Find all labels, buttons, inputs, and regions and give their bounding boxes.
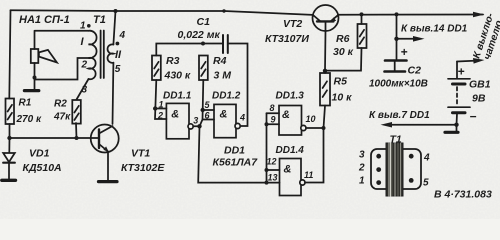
pin 5 label	[115, 64, 121, 75]
wire R1 bottom to base rail	[9, 124, 11, 138]
wire R5 bottom to pin10 node	[324, 106, 326, 129]
pin 3 label	[193, 116, 198, 126]
svg-text:II: II	[115, 49, 122, 61]
node junction pin1	[153, 106, 157, 110]
svg-text:4: 4	[239, 113, 245, 123]
wire R3 bottom to DD1.1 inputs	[155, 80, 166, 119]
wire winding I pin3 to R2	[77, 79, 89, 100]
svg-text:R3: R3	[166, 55, 180, 67]
DD1.4 label	[276, 145, 305, 156]
pin 13 label	[268, 173, 278, 183]
R1 value label	[16, 98, 42, 126]
gate DD1.2	[214, 104, 240, 137]
transformer T1 bottom label	[390, 134, 402, 146]
transformer T1 winding II	[108, 44, 114, 63]
chassis ground below speaker	[24, 78, 38, 91]
svg-text:+: +	[458, 65, 465, 79]
arrow to pin14	[413, 36, 425, 42]
svg-text:9: 9	[271, 115, 276, 125]
wire speaker top to winding I pin1	[35, 30, 89, 32]
wire base rail	[10, 137, 99, 139]
svg-text:4: 4	[423, 153, 430, 164]
svg-text:С1: С1	[197, 16, 211, 28]
arrow GB1 to switch	[473, 58, 485, 64]
battery GB1	[448, 62, 477, 125]
svg-text:5: 5	[423, 178, 429, 189]
svg-text:12: 12	[267, 157, 277, 167]
gate DD1.3 function label	[282, 109, 290, 121]
pin 3 label	[82, 85, 88, 96]
wire VT2 emitter to supply arrow	[339, 14, 484, 16]
wire DD1.3 out pin10	[306, 127, 324, 129]
node junction pin12	[265, 168, 269, 172]
wire left edge down to R1	[9, 10, 10, 98]
svg-text:2: 2	[157, 110, 163, 120]
capacitor C1	[223, 35, 228, 53]
winding II label	[115, 49, 122, 61]
node junction at winding II top	[114, 9, 118, 13]
pin 9 label	[271, 115, 276, 125]
resistor R1	[6, 99, 15, 125]
svg-text:R4: R4	[213, 55, 227, 67]
label K vyv 14 DD1	[401, 24, 468, 35]
svg-text:13: 13	[268, 173, 278, 183]
transformer T1 body	[371, 149, 421, 189]
svg-text:DD1.3: DD1.3	[276, 90, 305, 101]
node speaker bottom junction	[33, 76, 37, 80]
VD1 label	[23, 147, 62, 174]
svg-text:К выв.7 DD1: К выв.7 DD1	[369, 110, 430, 121]
wire speaker bottom to primary tap pin2	[35, 58, 89, 80]
gate DD1.4 function label	[284, 164, 292, 176]
wire input tie rail	[266, 113, 268, 182]
pin 1 label	[80, 21, 86, 32]
svg-text:&: &	[220, 108, 228, 120]
svg-text:1: 1	[159, 99, 164, 109]
gate DD1.1 function label	[171, 108, 179, 120]
wire DD1.2 pin5	[203, 109, 214, 111]
svg-text:11: 11	[304, 170, 313, 180]
svg-text:3: 3	[193, 116, 198, 126]
wire top rail from left box corner to VT2 collector	[11, 10, 313, 15]
svg-text:10: 10	[306, 114, 316, 124]
node junction pin3	[197, 124, 201, 128]
pin 11 label	[304, 170, 313, 180]
svg-text:С2: С2	[408, 65, 422, 77]
resistor R5	[320, 73, 330, 106]
pin 8 label	[270, 103, 275, 113]
svg-text:КТ3102Е: КТ3102Е	[121, 162, 165, 174]
svg-text:Т1: Т1	[93, 14, 106, 26]
wire R4 bottom to DD1.2 inputs	[203, 80, 215, 120]
svg-text:5: 5	[115, 64, 121, 75]
node junction R2/base	[75, 136, 79, 140]
pin 6 label	[205, 110, 211, 120]
svg-text:2: 2	[358, 163, 365, 174]
wire R6 top	[361, 14, 363, 24]
loudspeaker HA1 symbol	[31, 32, 57, 78]
wire R6 bottom to base node	[325, 48, 362, 71]
svg-text:GВ1: GВ1	[469, 79, 491, 91]
capacitor C2	[385, 45, 408, 72]
node junction GB1 minus	[454, 123, 458, 127]
arrow to switch	[473, 12, 485, 18]
wire C1 right to DD1.2 out pin4	[228, 44, 248, 127]
transistor VT1	[91, 125, 119, 181]
svg-text:&: &	[171, 108, 179, 120]
svg-text:1: 1	[359, 176, 365, 187]
diode VD1	[3, 138, 15, 179]
wire DD1.1 out pin3	[193, 125, 199, 127]
R4 value label	[213, 55, 231, 82]
pin 1 label	[159, 99, 164, 109]
document number label	[434, 189, 492, 201]
resistor R6	[358, 24, 367, 48]
wire pin3 node up to pin6 tie	[200, 120, 203, 127]
svg-text:DD1.4: DD1.4	[276, 145, 305, 156]
transformer T1 label	[93, 14, 106, 26]
transformer T1 pin dots	[376, 154, 413, 185]
loudspeaker HA1 label	[19, 14, 70, 26]
svg-text:К выв.14 DD1: К выв.14 DD1	[401, 24, 468, 35]
svg-text:КТ3107И: КТ3107И	[265, 33, 309, 45]
transformer T1 core band	[386, 143, 403, 196]
node junction C1/R4	[201, 42, 205, 46]
svg-text:3: 3	[359, 150, 365, 161]
svg-text:3 М: 3 М	[214, 70, 232, 82]
svg-text:9В: 9В	[472, 93, 486, 105]
chassis bar below VD1	[2, 179, 16, 182]
svg-text:КД510А: КД510А	[23, 162, 62, 174]
node junction base/R5/R6	[323, 69, 327, 73]
svg-text:47к: 47к	[53, 112, 71, 123]
DD1.3 label	[276, 90, 305, 101]
transistor VT2	[313, 5, 339, 31]
gate DD1.3	[279, 106, 306, 136]
DD1 chip label	[213, 145, 259, 169]
svg-text:VТ2: VТ2	[283, 18, 302, 30]
node junction pin5	[201, 108, 205, 112]
arrow to pin7	[381, 122, 393, 128]
pin 4 label	[239, 113, 245, 123]
svg-text:R6: R6	[336, 33, 350, 45]
transformer T1 winding I	[89, 31, 97, 80]
wire DD1.4 out pin11 up to pin10 node	[305, 128, 324, 183]
node junction pin10/R5	[322, 126, 326, 130]
DD1.1 label	[163, 91, 192, 102]
svg-text:НА1 СП-1: НА1 СП-1	[19, 14, 70, 26]
wire rail to winding II pin4	[113, 11, 115, 45]
gate DD1.4	[280, 159, 306, 196]
node junction C2 top	[395, 12, 399, 16]
wire C2 branch	[396, 14, 398, 59]
pin 12 label	[267, 157, 277, 167]
C1 label	[178, 16, 221, 41]
wire DD1.1 pin1	[155, 108, 166, 110]
pin 4 label	[119, 30, 126, 41]
svg-text:1: 1	[80, 21, 86, 32]
pin 2 label	[81, 60, 88, 71]
svg-text:&: &	[284, 164, 292, 176]
gate DD1.1	[166, 103, 193, 138]
resistor R4	[199, 56, 208, 81]
wire R5 top	[324, 71, 326, 73]
svg-text:1000мк×10В: 1000мк×10В	[369, 79, 428, 90]
transformer T1 core	[101, 31, 104, 79]
svg-text:4: 4	[119, 30, 126, 41]
label K vyv 7 DD1	[369, 110, 430, 121]
wire winding II pin5 to VT1 collector	[112, 63, 115, 124]
VT1 label	[121, 147, 165, 174]
DD1.2 label	[212, 91, 241, 102]
wire GB1 plus arrow to switch	[457, 60, 474, 63]
svg-text:DD1.2: DD1.2	[212, 91, 241, 102]
wire pin9	[267, 123, 280, 125]
svg-text:430 к: 430 к	[164, 70, 191, 82]
node junction at x224	[222, 9, 225, 12]
svg-text:VТ1: VТ1	[131, 147, 150, 159]
node junction pin13	[265, 181, 269, 185]
svg-text:R5: R5	[334, 76, 348, 88]
chassis bar below VT1 emitter	[99, 180, 118, 183]
wire pin12	[267, 169, 280, 171]
node junction pin9	[265, 122, 269, 126]
pin 5 label	[205, 100, 211, 110]
resistor R3	[152, 56, 161, 81]
svg-text:10 к: 10 к	[332, 92, 353, 104]
svg-text:&: &	[282, 109, 290, 121]
svg-text:−: −	[470, 110, 477, 124]
svg-text:R1: R1	[19, 98, 32, 109]
node junction R1/VD1	[7, 136, 11, 140]
svg-text:DD1: DD1	[224, 145, 245, 157]
gate DD1.2 function label	[220, 108, 228, 120]
node junction R6 top	[360, 12, 364, 16]
wire R3 top to C1	[156, 44, 223, 56]
svg-text:270 к: 270 к	[16, 114, 42, 125]
R5 value label	[332, 76, 353, 104]
svg-text:В 4·731.083: В 4·731.083	[434, 189, 492, 201]
GB1 label	[469, 79, 491, 105]
VT2 label	[265, 18, 309, 45]
wire VT2 base down	[324, 31, 327, 71]
R6 value label	[333, 33, 354, 58]
svg-text:0,022 мк: 0,022 мк	[178, 29, 221, 41]
T1 pin labels right	[423, 153, 430, 189]
T1 pin labels left	[358, 150, 365, 187]
polarity dot winding II	[116, 42, 120, 46]
rotated label to switch	[471, 11, 500, 63]
wire R2 bottom	[75, 123, 78, 138]
R2 value label	[53, 99, 71, 123]
wire pin3 down to DD1.4 input rail	[198, 126, 279, 182]
wire GB1 minus to DD1 pin7	[392, 124, 457, 126]
svg-text:К561ЛА7: К561ЛА7	[213, 157, 259, 169]
wire to DD1 pin 14 with arrow	[397, 38, 415, 40]
svg-text:+: +	[401, 45, 408, 59]
winding I label	[81, 36, 85, 48]
node junction DD1 pin14 branch	[394, 37, 398, 41]
C2 value label	[369, 65, 428, 90]
R3 value label	[164, 55, 191, 82]
svg-text:30 к: 30 к	[333, 46, 354, 58]
svg-text:DD1.1: DD1.1	[163, 91, 192, 102]
svg-text:VD1: VD1	[29, 147, 50, 159]
svg-text:R2: R2	[54, 99, 67, 110]
resistor R2	[72, 100, 81, 124]
pin 10 label	[306, 114, 316, 124]
svg-text:8: 8	[270, 103, 275, 113]
wire pin8	[267, 112, 280, 114]
svg-text:2: 2	[81, 60, 88, 71]
pin 2 label	[157, 110, 163, 120]
polarity dot winding I	[87, 24, 91, 28]
chassis bar below GB1	[445, 125, 458, 133]
